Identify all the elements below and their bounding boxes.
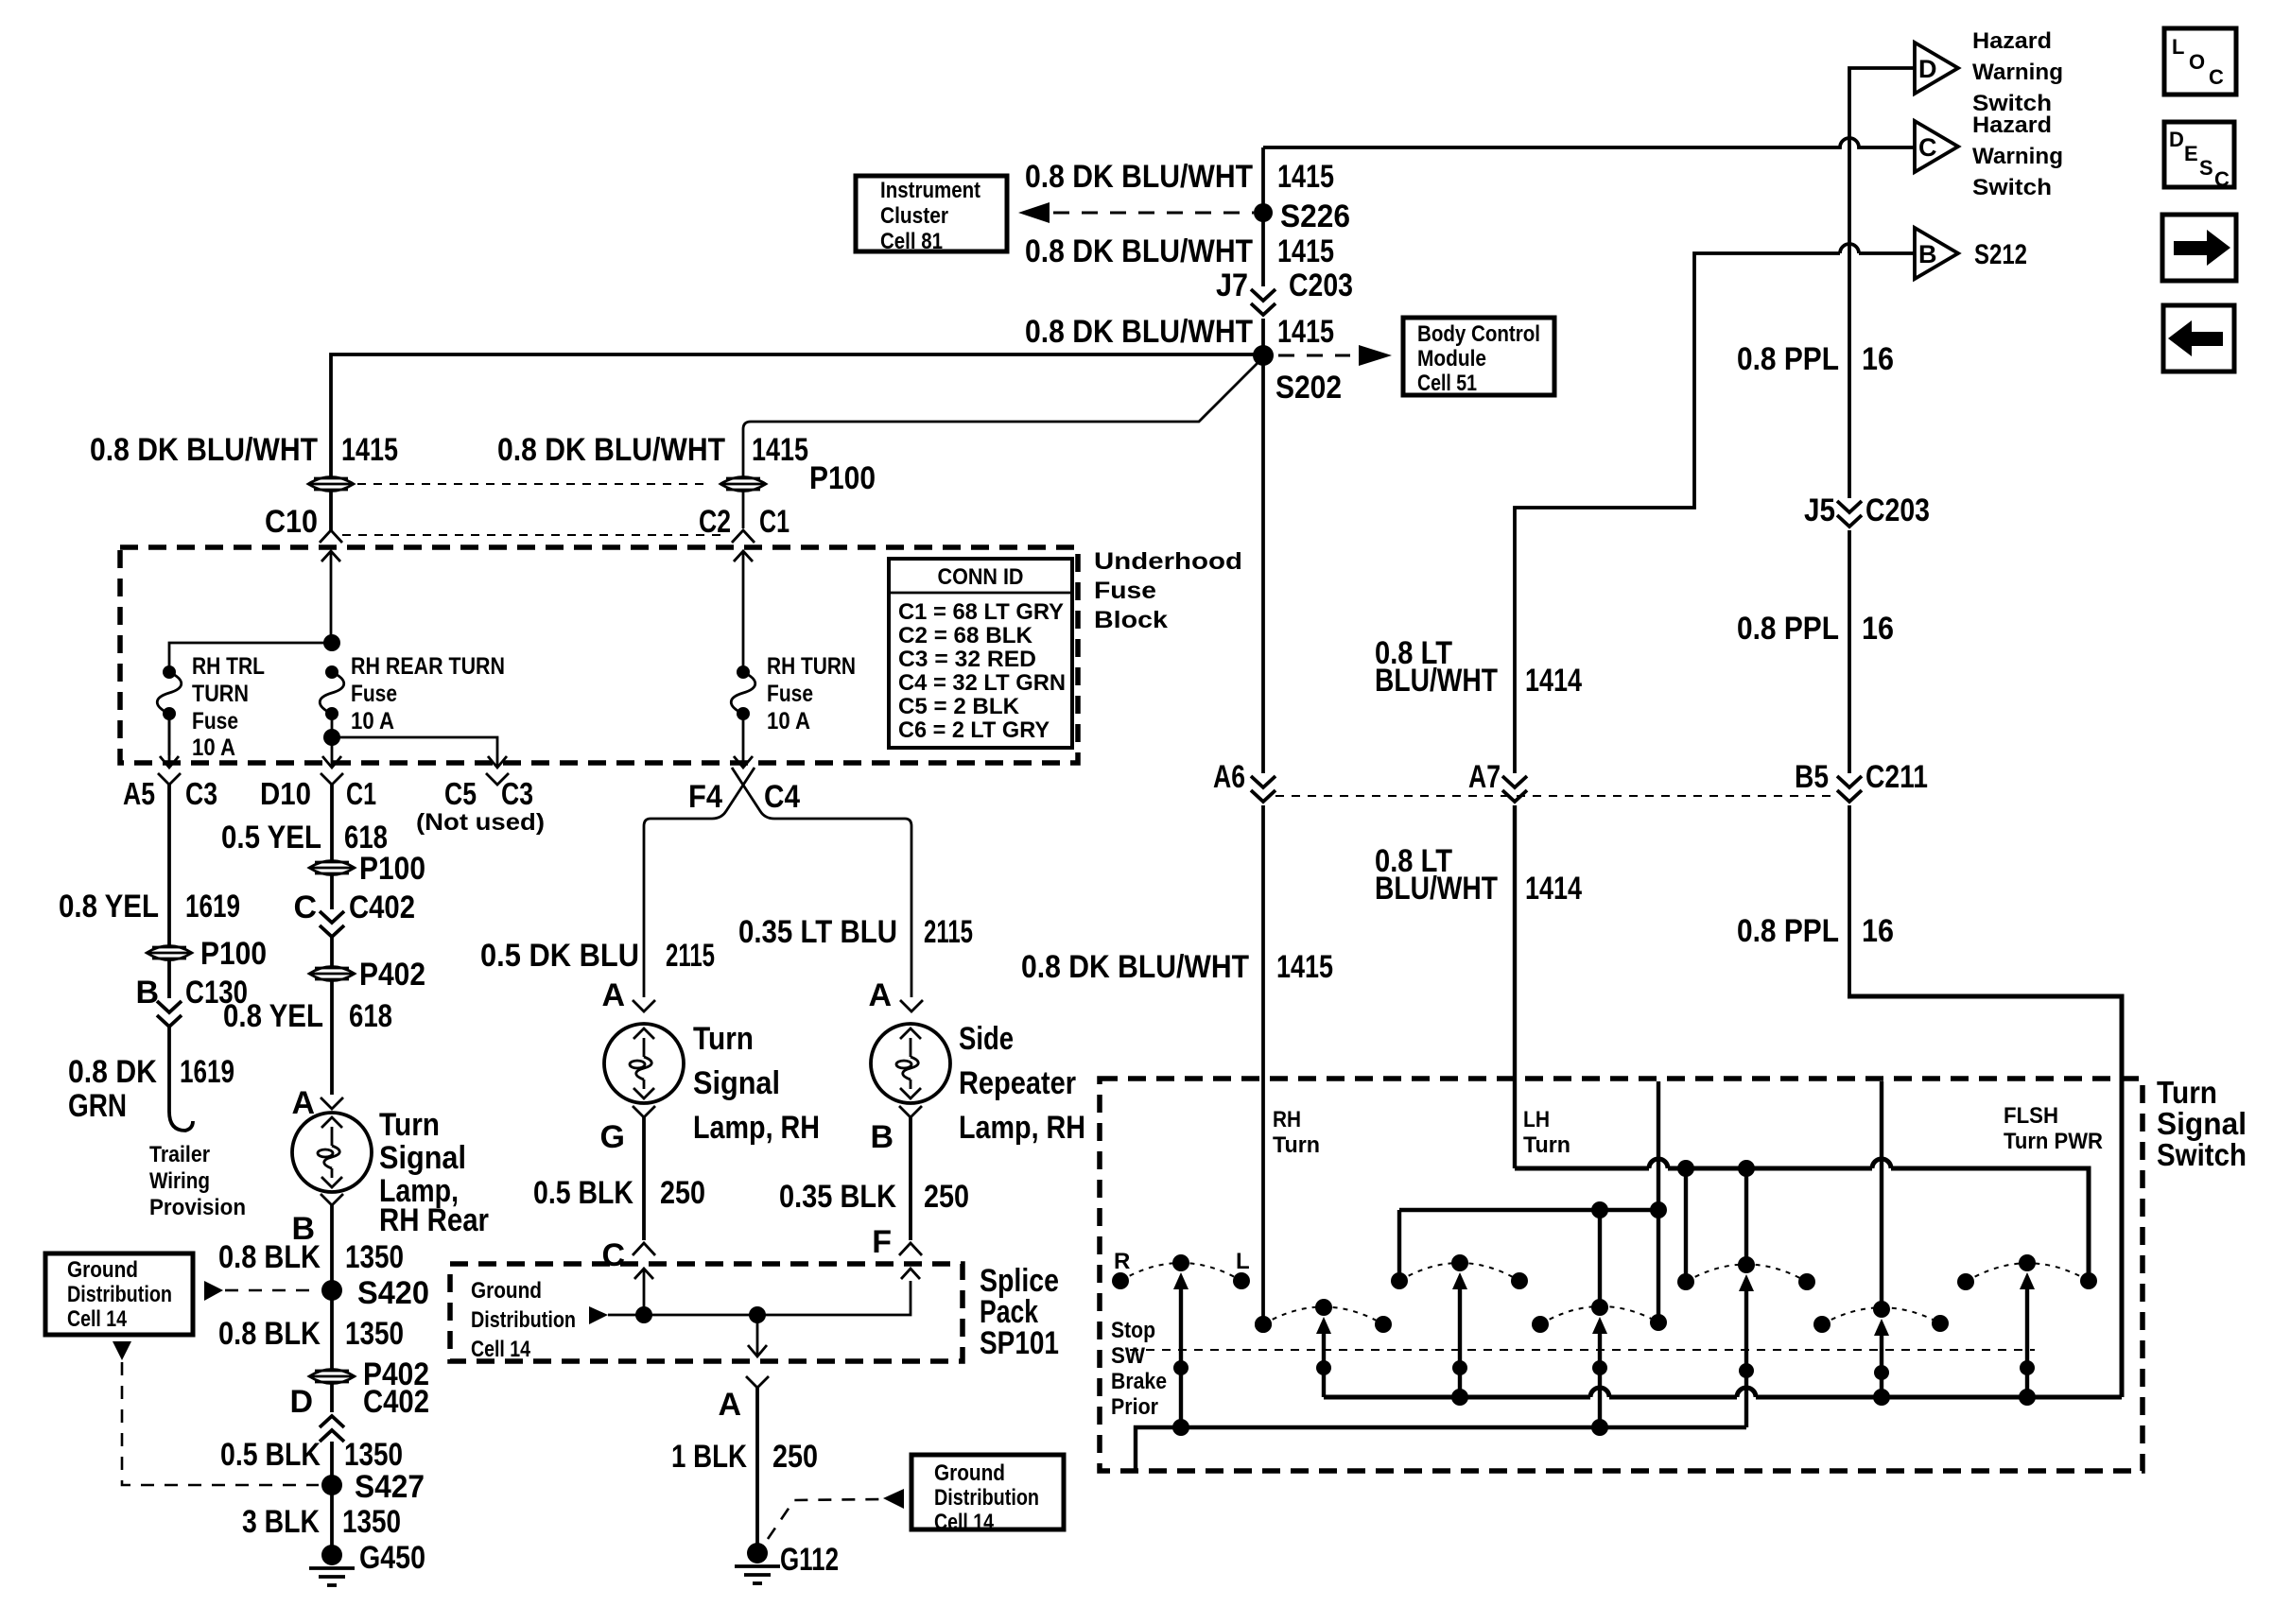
svg-text:RH: RH bbox=[1273, 1107, 1301, 1132]
text Stop SW Brake Prior bbox=[1111, 1318, 1167, 1420]
wire splice A down with arrow bbox=[748, 1315, 767, 1356]
svg-text:S427: S427 bbox=[355, 1469, 425, 1505]
pole 5 contacts and arc bbox=[1677, 1256, 1815, 1290]
text Side Repeater Lamp, RH bbox=[959, 1021, 1085, 1146]
wire: C1 feed inside fuse block bbox=[742, 552, 745, 672]
text Underhood Fuse Block bbox=[1094, 548, 1242, 633]
svg-text:C2 = 68 BLK: C2 = 68 BLK bbox=[898, 623, 1033, 648]
svg-text:L: L bbox=[1236, 1249, 1250, 1274]
svg-text:C3: C3 bbox=[185, 776, 217, 811]
text Turn Signal Switch bbox=[2157, 1075, 2247, 1172]
arrowhead to Instrument Cluster bbox=[1018, 202, 1050, 223]
pin caret B rear lamp bbox=[321, 1194, 343, 1205]
vertical from box edge to pole6 center bbox=[1880, 1081, 1883, 1309]
svg-text:Brake: Brake bbox=[1111, 1369, 1167, 1394]
svg-text:O: O bbox=[2189, 50, 2205, 74]
svg-text:0.8 YEL: 0.8 YEL bbox=[223, 998, 323, 1034]
LH bus hop over 1754 bbox=[1649, 1159, 1668, 1168]
wire: PPL vertical below B5 turning right to FLSH drop bbox=[1848, 805, 1851, 994]
wire below RH TURN fuse bbox=[742, 714, 745, 767]
pole 4 contacts and arc bbox=[1532, 1299, 1667, 1333]
wire: hazard D stub and PPL vertical to J5 bbox=[1849, 68, 1915, 498]
svg-text:P100: P100 bbox=[359, 851, 425, 887]
svg-text:0.8 DK BLU/WHT: 0.8 DK BLU/WHT bbox=[1025, 159, 1253, 195]
arrow from GD box to S420 bbox=[204, 1281, 223, 1301]
svg-text:1414: 1414 bbox=[1525, 663, 1582, 699]
pin caret C5 bbox=[486, 773, 509, 785]
pole 2 contacts and arc bbox=[1255, 1299, 1392, 1333]
svg-text:0.8 DK BLU/WHT: 0.8 DK BLU/WHT bbox=[1025, 314, 1253, 350]
svg-text:618: 618 bbox=[349, 998, 392, 1034]
pin caret A rear lamp bbox=[321, 1097, 343, 1109]
pole 4 wiper bbox=[1592, 1317, 1607, 1427]
svg-text:Cell 81: Cell 81 bbox=[880, 229, 943, 254]
down arrow out of fuse box (F4) bbox=[734, 756, 753, 768]
lamp: Turn Signal Lamp RH Rear bbox=[292, 1113, 372, 1192]
wire: 1414 vertical A7 down into switch (LH turn) bbox=[1513, 805, 1517, 1168]
inline connector P402 (rear chain) bbox=[309, 967, 355, 981]
fuse RH TURN 10A (element) bbox=[731, 665, 755, 720]
svg-text:J5: J5 bbox=[1804, 492, 1835, 528]
svg-text:L: L bbox=[2172, 35, 2184, 59]
svg-text:Distribution: Distribution bbox=[471, 1307, 576, 1333]
svg-text:2115: 2115 bbox=[666, 938, 715, 974]
junction dot splice C bbox=[635, 1306, 652, 1323]
svg-text:Provision: Provision bbox=[149, 1195, 246, 1220]
inline connector P100 (rear chain) bbox=[309, 861, 355, 875]
svg-text:1350: 1350 bbox=[344, 1437, 403, 1473]
svg-text:Turn: Turn bbox=[1523, 1132, 1570, 1158]
svg-text:0.5 BLK: 0.5 BLK bbox=[533, 1175, 633, 1211]
pin caret C10 bbox=[320, 530, 342, 543]
text Instrument Cluster Cell 81 bbox=[880, 178, 980, 254]
svg-text:1415: 1415 bbox=[752, 432, 808, 468]
box: Body Control Module Cell 51 bbox=[1403, 318, 1554, 395]
svg-text:Repeater: Repeater bbox=[959, 1065, 1076, 1101]
svg-text:Trailer: Trailer bbox=[149, 1142, 210, 1167]
splice bus SP101 bbox=[608, 1281, 911, 1315]
ground G450 bbox=[309, 1545, 355, 1585]
right arrow glyph bbox=[2174, 230, 2230, 266]
pole 6 contacts and arc bbox=[1813, 1301, 1949, 1333]
svg-text:LH: LH bbox=[1523, 1107, 1550, 1132]
svg-text:Lamp, RH: Lamp, RH bbox=[959, 1110, 1085, 1146]
junction dot 1692 on bus-1280 bbox=[1591, 1201, 1608, 1218]
dashed leader to Instrument Cluster bbox=[1053, 212, 1254, 215]
svg-text:F: F bbox=[872, 1224, 892, 1260]
pin caret D10 bbox=[321, 773, 343, 785]
svg-text:Turn: Turn bbox=[693, 1021, 754, 1057]
arrow Ground Distribution (right) bbox=[883, 1489, 904, 1509]
svg-text:Distribution: Distribution bbox=[67, 1282, 172, 1307]
svg-text:A6: A6 bbox=[1213, 759, 1245, 795]
junction dot C5 branch bbox=[323, 729, 340, 746]
wire: hazard C wire from S202 top corner to triangle C with hop over PPL wire bbox=[1263, 138, 1915, 147]
svg-text:0.5 YEL: 0.5 YEL bbox=[221, 820, 321, 855]
svg-text:C6 = 2 LT GRY: C6 = 2 LT GRY bbox=[898, 717, 1050, 743]
dashed leader to Body Control Module bbox=[1278, 354, 1350, 357]
bus-1 hop over 1692 bbox=[1590, 1388, 1609, 1397]
box left-arrow bbox=[2163, 305, 2234, 371]
svg-text:CONN ID: CONN ID bbox=[938, 564, 1024, 590]
connector B5/C211 double chevron bbox=[1837, 776, 1862, 802]
crossover X F4/C4 bbox=[644, 768, 755, 997]
svg-text:C3 = 32 RED: C3 = 32 RED bbox=[898, 647, 1036, 672]
svg-text:Cell 14: Cell 14 bbox=[471, 1337, 531, 1362]
triangle connector D bbox=[1915, 43, 1958, 94]
svg-text:Ground: Ground bbox=[67, 1257, 138, 1283]
svg-text:Turn: Turn bbox=[1273, 1132, 1320, 1158]
text Ground Distribution Cell 14 (splice) bbox=[471, 1278, 576, 1362]
text RH REAR TURN Fuse 10 A bbox=[351, 653, 505, 734]
box LOC bbox=[2164, 28, 2236, 95]
splice S202 junction dot bbox=[1253, 345, 1274, 366]
thin dashed connector plane C10/C2 bbox=[342, 534, 728, 536]
text Hazard Warning Switch (D) bbox=[1972, 28, 2063, 116]
svg-text:S212: S212 bbox=[1974, 239, 2027, 270]
wire: main rear chain below D10 bbox=[330, 785, 334, 909]
connector J7/C203 double chevron bbox=[1251, 289, 1275, 315]
svg-text:C3: C3 bbox=[501, 776, 533, 811]
svg-text:P100: P100 bbox=[809, 460, 876, 496]
svg-text:C203: C203 bbox=[1865, 492, 1930, 528]
svg-text:S: S bbox=[2199, 156, 2213, 180]
bus-1 wiper common (FLSH) with hops bbox=[1324, 1395, 2122, 1400]
wire: trailer branch below A5 bbox=[167, 785, 171, 998]
svg-text:C402: C402 bbox=[349, 890, 415, 925]
down arrow out of fuse box (A5) bbox=[160, 714, 179, 768]
box: Instrument Cluster Cell 81 bbox=[856, 176, 1007, 251]
triangle connector B bbox=[1915, 228, 1958, 279]
dashed leader GD to S427 bbox=[122, 1362, 319, 1485]
svg-text:0.8 YEL: 0.8 YEL bbox=[59, 889, 159, 924]
svg-text:250: 250 bbox=[772, 1439, 818, 1475]
svg-text:1 BLK: 1 BLK bbox=[671, 1439, 747, 1475]
wire: PPL vertical J5 to B5 bbox=[1848, 530, 1851, 773]
svg-text:0.5 BLK: 0.5 BLK bbox=[220, 1437, 321, 1473]
vertical 1847 to pole5 center bbox=[1744, 1168, 1748, 1265]
arrowhead to Body Control Module bbox=[1359, 345, 1392, 366]
svg-text:C1 = 68 LT GRY: C1 = 68 LT GRY bbox=[898, 599, 1064, 625]
up arrow into splice (C) bbox=[634, 1269, 653, 1315]
svg-text:1350: 1350 bbox=[345, 1239, 404, 1275]
svg-text:C: C bbox=[2209, 65, 2224, 89]
svg-text:Switch: Switch bbox=[1972, 175, 2052, 200]
svg-text:0.5 DK BLU: 0.5 DK BLU bbox=[480, 938, 639, 974]
junction dots bus-1 bbox=[1451, 1389, 1468, 1406]
pole 1 wiper bbox=[1173, 1272, 1189, 1427]
svg-text:C203: C203 bbox=[1289, 268, 1353, 303]
svg-text:250: 250 bbox=[924, 1179, 969, 1215]
svg-text:1350: 1350 bbox=[342, 1504, 401, 1540]
arrow down from GD box bottom bbox=[113, 1341, 131, 1360]
svg-text:1415: 1415 bbox=[1277, 159, 1334, 195]
svg-text:Turn: Turn bbox=[379, 1107, 440, 1143]
fuse RH REAR TURN 10A (element) bbox=[320, 665, 344, 720]
svg-text:1619: 1619 bbox=[185, 889, 240, 924]
connector A6 double chevron bbox=[1251, 776, 1275, 802]
connector D/C402 double chevron up bbox=[320, 1416, 344, 1442]
svg-text:Wiring: Wiring bbox=[149, 1168, 210, 1194]
box: Underhood Fuse Block (dashed) bbox=[120, 547, 1078, 763]
wire: branch to RH TRL TURN fuse bbox=[169, 643, 332, 672]
splice S226 junction dot bbox=[1254, 203, 1273, 222]
junction dots bus-2 bbox=[1172, 1419, 1189, 1436]
svg-text:(Not used): (Not used) bbox=[416, 809, 545, 836]
bus-1280 inside switch bbox=[1399, 1208, 1658, 1212]
pole 1 (R/L) contacts and arc bbox=[1112, 1254, 1250, 1289]
box right-arrow bbox=[2162, 215, 2236, 281]
svg-text:Turn: Turn bbox=[2157, 1075, 2217, 1110]
text Trailer Wiring Provision bbox=[149, 1142, 246, 1220]
svg-text:1415: 1415 bbox=[1276, 949, 1333, 985]
svg-text:Hazard: Hazard bbox=[1972, 112, 2052, 138]
svg-text:P100: P100 bbox=[200, 936, 267, 972]
pole 6 wiper bbox=[1874, 1319, 1889, 1397]
svg-text:2115: 2115 bbox=[924, 914, 973, 950]
dashed leader G112 to GD box bbox=[768, 1499, 880, 1539]
svg-text:Fuse: Fuse bbox=[767, 681, 813, 707]
svg-text:S420: S420 bbox=[357, 1275, 429, 1311]
inline connector P100 (trailer) bbox=[147, 946, 192, 960]
junction dot 1754 on bus-1280 bbox=[1650, 1201, 1667, 1218]
svg-text:D10: D10 bbox=[260, 776, 311, 811]
text Hazard Warning Switch (C) bbox=[1972, 112, 2063, 200]
svg-text:S202: S202 bbox=[1275, 370, 1342, 406]
vertical 1783 to pole5 left contact bbox=[1684, 1168, 1688, 1282]
svg-text:0.8 PPL: 0.8 PPL bbox=[1737, 611, 1839, 647]
vertical from box edge to pole4 right contact bbox=[1657, 1081, 1660, 1322]
lamp: Turn Signal Lamp RH bbox=[604, 1024, 684, 1103]
connector C/C402 double chevron bbox=[320, 911, 344, 937]
svg-text:A: A bbox=[868, 977, 892, 1013]
wire: FLSH feed into turn signal switch bbox=[1848, 996, 2122, 1397]
wire C402 to G450 bbox=[330, 1442, 334, 1555]
lamp: Side Repeater Lamp RH bbox=[871, 1024, 950, 1103]
svg-text:Module: Module bbox=[1417, 346, 1486, 371]
LH turn bus inside switch with hops bbox=[1515, 1168, 2089, 1281]
pin caret A5 bbox=[158, 773, 181, 785]
down arrow out of fuse box (C5) bbox=[488, 756, 507, 768]
text Splice Pack SP101 bbox=[980, 1263, 1059, 1361]
wire: 1415 vertical segment A6 into turn signal switch to pole contact bbox=[1261, 805, 1265, 1324]
inline connector P402 (ground chain) bbox=[309, 1370, 355, 1384]
up arrow into splice (F) bbox=[901, 1269, 920, 1279]
svg-text:B5: B5 bbox=[1795, 759, 1829, 795]
svg-text:0.35 LT BLU: 0.35 LT BLU bbox=[738, 914, 897, 950]
svg-text:Prior: Prior bbox=[1111, 1394, 1158, 1420]
pin caret C splice bbox=[633, 1243, 655, 1255]
svg-text:1415: 1415 bbox=[1277, 314, 1334, 350]
svg-text:250: 250 bbox=[660, 1175, 705, 1211]
pin caret B side repeater bbox=[899, 1106, 922, 1117]
CONN ID divider line bbox=[889, 592, 1072, 595]
svg-text:3 BLK: 3 BLK bbox=[242, 1504, 320, 1540]
svg-text:A7: A7 bbox=[1468, 759, 1501, 795]
svg-text:Switch: Switch bbox=[2157, 1137, 2247, 1172]
svg-text:A: A bbox=[601, 977, 625, 1013]
junction dot LH bus 1847 bbox=[1738, 1160, 1755, 1177]
arrow into fuse block (C10 feed) bbox=[321, 551, 340, 561]
svg-text:Instrument: Instrument bbox=[880, 178, 980, 203]
vertical 1480 to pole3 left contact bbox=[1397, 1210, 1401, 1281]
text RH TRL TURN Fuse 10 A bbox=[192, 653, 265, 761]
svg-text:Warning: Warning bbox=[1972, 60, 2063, 85]
svg-text:10 A: 10 A bbox=[192, 734, 235, 761]
svg-text:Body Control: Body Control bbox=[1417, 321, 1540, 347]
pin caret F splice bbox=[899, 1243, 922, 1255]
svg-text:Cell 14: Cell 14 bbox=[67, 1306, 128, 1332]
svg-text:P402: P402 bbox=[359, 957, 425, 993]
svg-text:0.8 DK: 0.8 DK bbox=[68, 1054, 157, 1090]
text FLSH Turn PWR bbox=[2004, 1103, 2103, 1154]
pole 3 contacts and arc bbox=[1391, 1254, 1528, 1289]
text RH Turn bbox=[1273, 1107, 1320, 1158]
text Ground Distribution Cell 14 (right) bbox=[934, 1460, 1039, 1535]
svg-text:B: B bbox=[135, 975, 159, 1011]
junction dot fuse feed left branch bbox=[323, 634, 340, 651]
svg-text:Turn PWR: Turn PWR bbox=[2004, 1129, 2103, 1154]
svg-text:BLU/WHT: BLU/WHT bbox=[1375, 663, 1498, 699]
hop of S212 wire over PPL vertical bbox=[1840, 244, 1859, 253]
thin dashed connector plane A6-A7-B5 bbox=[1275, 795, 1837, 797]
box: CONN ID table bbox=[889, 559, 1072, 748]
svg-text:RH TRL: RH TRL bbox=[192, 653, 265, 680]
svg-text:1619: 1619 bbox=[180, 1054, 234, 1090]
pole 7 wiper bbox=[2020, 1272, 2035, 1397]
pin caret A side repeater bbox=[900, 1000, 923, 1011]
wire below C130 with pigtail hook bbox=[169, 1027, 193, 1131]
svg-text:0.8 PPL: 0.8 PPL bbox=[1737, 913, 1839, 949]
svg-text:S226: S226 bbox=[1280, 199, 1350, 234]
svg-text:0.8 DK BLU/WHT: 0.8 DK BLU/WHT bbox=[90, 432, 318, 468]
down arrow out of fuse box (D10) bbox=[322, 756, 341, 768]
arrow into fuse block (C1 feed) bbox=[734, 551, 753, 561]
wire to G112 bbox=[755, 1388, 759, 1553]
pin caret G turn lamp bbox=[633, 1106, 655, 1117]
svg-text:D: D bbox=[1918, 55, 1937, 83]
svg-text:BLU/WHT: BLU/WHT bbox=[1375, 871, 1498, 907]
ground G112 bbox=[735, 1543, 780, 1583]
svg-text:D: D bbox=[289, 1384, 313, 1420]
left arrow glyph bbox=[2168, 320, 2223, 356]
svg-text:C: C bbox=[293, 890, 317, 925]
svg-text:0.8 DK BLU/WHT: 0.8 DK BLU/WHT bbox=[1025, 233, 1253, 269]
svg-text:G: G bbox=[600, 1119, 625, 1155]
connector J5/C203 double chevron bbox=[1837, 501, 1862, 527]
svg-text:16: 16 bbox=[1862, 913, 1894, 949]
svg-text:G450: G450 bbox=[359, 1540, 425, 1576]
box: Splice Pack SP101 (dashed) bbox=[450, 1264, 963, 1361]
wire side repeater to splice F bbox=[909, 1117, 912, 1240]
bus-2 wiper common (lower) bbox=[1136, 1427, 1746, 1471]
svg-text:C1: C1 bbox=[346, 776, 376, 811]
svg-text:RH REAR TURN: RH REAR TURN bbox=[351, 653, 505, 680]
svg-text:10 A: 10 A bbox=[351, 708, 394, 734]
thin dashed stop-sw line bbox=[1130, 1349, 2035, 1351]
text RH TURN Fuse 10 A bbox=[767, 653, 856, 734]
connector A7 double chevron bbox=[1502, 776, 1527, 802]
box: Turn Signal Switch (dashed) bbox=[1100, 1079, 2143, 1471]
svg-text:A: A bbox=[718, 1387, 741, 1423]
inline connector P100 on C10 wire bbox=[308, 477, 354, 492]
svg-text:Cell 51: Cell 51 bbox=[1417, 371, 1477, 396]
wire C402 to lamp bbox=[330, 937, 334, 1095]
svg-text:J7: J7 bbox=[1216, 268, 1248, 303]
svg-text:C2: C2 bbox=[699, 504, 731, 540]
svg-text:C1: C1 bbox=[759, 504, 789, 540]
junction dot splice A bbox=[749, 1306, 766, 1323]
svg-text:C4: C4 bbox=[764, 779, 800, 815]
junction dot RH turn wire at pole2 left contact bbox=[1255, 1316, 1272, 1333]
pin caret C1 bbox=[732, 530, 755, 543]
svg-text:Fuse: Fuse bbox=[1094, 578, 1156, 604]
svg-text:A5: A5 bbox=[123, 776, 155, 811]
box: Ground Distribution Cell 14 (right) bbox=[911, 1455, 1064, 1529]
svg-text:0.8 DK BLU/WHT: 0.8 DK BLU/WHT bbox=[1021, 949, 1249, 985]
svg-text:D: D bbox=[2169, 128, 2184, 151]
LH bus hop over 1990 bbox=[1872, 1159, 1891, 1168]
svg-text:C5: C5 bbox=[444, 776, 477, 811]
svg-text:SW: SW bbox=[1111, 1343, 1145, 1369]
wire: 1415 vertical segment J7 to A6 bbox=[1261, 319, 1265, 773]
svg-text:Hazard: Hazard bbox=[1972, 28, 2052, 54]
text Turn Signal Lamp, RH bbox=[693, 1021, 820, 1146]
svg-text:Distribution: Distribution bbox=[934, 1485, 1039, 1511]
svg-text:1350: 1350 bbox=[345, 1316, 404, 1352]
splice S427 junction dot bbox=[321, 1475, 342, 1495]
svg-text:Cluster: Cluster bbox=[880, 203, 948, 229]
svg-text:C5 = 2 BLK: C5 = 2 BLK bbox=[898, 694, 1020, 719]
svg-text:0.35 BLK: 0.35 BLK bbox=[779, 1179, 896, 1215]
splice S420 junction dot bbox=[321, 1280, 342, 1301]
bus-1 hop over 1847 bbox=[1737, 1388, 1756, 1397]
pole 2 wiper bbox=[1316, 1317, 1331, 1397]
svg-text:Underhood: Underhood bbox=[1094, 548, 1242, 575]
svg-text:Signal: Signal bbox=[693, 1065, 780, 1101]
svg-text:10 A: 10 A bbox=[767, 708, 810, 734]
svg-text:G112: G112 bbox=[780, 1542, 839, 1578]
text Turn Signal Lamp, RH Rear bbox=[379, 1107, 489, 1238]
svg-text:0.8 BLK: 0.8 BLK bbox=[218, 1316, 321, 1352]
svg-text:16: 16 bbox=[1862, 611, 1894, 647]
svg-text:Fuse: Fuse bbox=[351, 681, 397, 707]
svg-text:Fuse: Fuse bbox=[192, 708, 238, 734]
wire: S212 B wire with hop, down and across to 1414 vertical bbox=[1515, 253, 1915, 773]
box DESC bbox=[2164, 122, 2234, 187]
text Ground Distribution Cell 14 (left) bbox=[67, 1257, 172, 1332]
svg-text:Ground: Ground bbox=[471, 1278, 542, 1304]
svg-text:Side: Side bbox=[959, 1021, 1014, 1057]
text LH Turn bbox=[1523, 1107, 1570, 1158]
svg-text:RH TURN: RH TURN bbox=[767, 653, 856, 680]
thin dashed connector plane between P100 halves bbox=[357, 483, 707, 485]
svg-text:Signal: Signal bbox=[2157, 1106, 2247, 1141]
svg-text:SP101: SP101 bbox=[980, 1325, 1059, 1361]
svg-text:16: 16 bbox=[1862, 341, 1894, 377]
inline connector P100 on C1 wire bbox=[720, 477, 766, 492]
dashed leader GD to S420 bbox=[225, 1289, 320, 1292]
svg-text:A: A bbox=[291, 1085, 315, 1121]
CONN ID rows bbox=[898, 599, 1066, 743]
svg-text:1414: 1414 bbox=[1525, 871, 1582, 907]
wire below RH TRL fuse bbox=[168, 714, 171, 755]
pin caret A (below splice) bbox=[746, 1376, 769, 1388]
letters LOC bbox=[2172, 35, 2224, 89]
fuse RH TRL TURN 10A (element) bbox=[157, 665, 182, 720]
svg-text:TURN: TURN bbox=[192, 681, 249, 707]
svg-text:0.8 BLK: 0.8 BLK bbox=[218, 1239, 321, 1275]
